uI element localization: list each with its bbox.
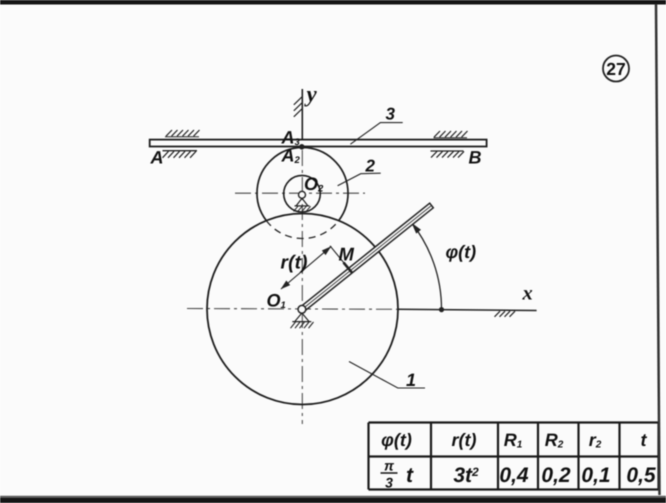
svg-text:27: 27 <box>606 59 625 79</box>
svg-text:0,4: 0,4 <box>499 464 529 487</box>
svg-text:y: y <box>304 82 318 107</box>
svg-text:0,2: 0,2 <box>541 464 571 487</box>
svg-text:2: 2 <box>365 157 376 176</box>
svg-text:φ(t): φ(t) <box>446 242 477 262</box>
svg-text:t: t <box>641 430 648 450</box>
svg-text:A: A <box>150 148 164 168</box>
svg-text:r(t): r(t) <box>281 253 308 274</box>
svg-text:r(t): r(t) <box>452 430 477 450</box>
svg-text:φ(t): φ(t) <box>381 430 412 450</box>
svg-text:3: 3 <box>386 105 396 124</box>
svg-text:t: t <box>406 464 414 487</box>
svg-text:1: 1 <box>406 370 416 390</box>
svg-text:π: π <box>384 458 395 474</box>
svg-text:B: B <box>469 148 482 168</box>
svg-text:M: M <box>339 244 355 265</box>
svg-text:0,5: 0,5 <box>626 464 656 487</box>
svg-text:x: x <box>522 283 533 305</box>
svg-text:3: 3 <box>385 475 393 491</box>
svg-text:0,1: 0,1 <box>581 464 610 487</box>
